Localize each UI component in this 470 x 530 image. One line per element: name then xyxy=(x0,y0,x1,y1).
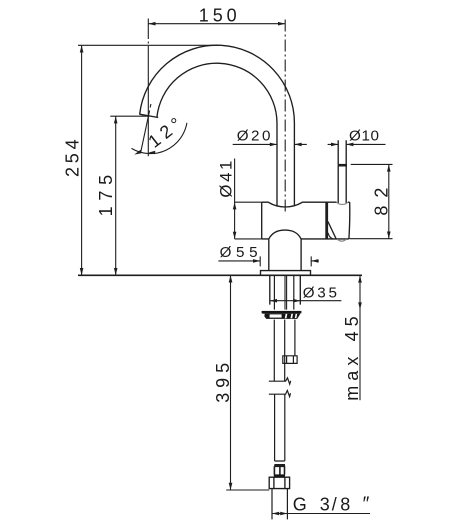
base flange xyxy=(261,271,311,276)
dim O55 ticks xyxy=(260,256,311,266)
hose lower xyxy=(275,394,285,461)
thread tube xyxy=(272,489,287,520)
body left edge xyxy=(261,202,263,239)
shank stud lines xyxy=(285,276,287,310)
arrow 82 bottom xyxy=(387,232,391,239)
deck line xyxy=(78,274,362,276)
dim O35 line xyxy=(270,300,342,302)
arrow 150 right xyxy=(278,22,285,26)
dim 175 line xyxy=(115,116,117,275)
pipe socket dip xyxy=(269,203,302,207)
spout outlet cut xyxy=(140,114,159,117)
dim 395 bottom extension xyxy=(226,489,269,491)
arrow O10 right xyxy=(346,143,353,147)
dim 150 line xyxy=(148,23,285,25)
svg-text:Ø10: Ø10 xyxy=(349,128,379,145)
svg-text:″: ″ xyxy=(363,494,370,515)
arrow O10 left xyxy=(331,143,338,147)
dim 395 line xyxy=(230,275,232,490)
hose end collar xyxy=(274,461,285,465)
body joint thick line xyxy=(325,202,328,239)
dim max45 line xyxy=(359,275,361,400)
arrow 254 top xyxy=(80,45,84,52)
centerline outlet tilted 12deg xyxy=(141,104,151,153)
dim O41 line xyxy=(234,159,236,239)
base neck xyxy=(269,239,301,271)
arrowheads xyxy=(80,22,391,515)
arrow O55 right xyxy=(311,259,318,263)
svg-text:254: 254 xyxy=(62,139,82,177)
arrow angle left xyxy=(134,150,141,155)
arrow 150 left xyxy=(148,22,155,26)
arrow max45 bottom xyxy=(358,302,362,309)
break line upper xyxy=(269,378,291,384)
dim 82 extensions xyxy=(350,164,393,238)
dim O20 line xyxy=(233,143,307,145)
crimp bars xyxy=(274,466,284,474)
svg-text:3: 3 xyxy=(320,494,330,514)
arrow max45 top xyxy=(358,275,362,282)
arrow O35 left xyxy=(270,299,277,303)
arrow 175 top xyxy=(114,116,118,123)
stud end box xyxy=(283,356,297,364)
body bottom edge xyxy=(262,238,349,240)
crimp dark band xyxy=(274,465,285,467)
arrow O41 bottom xyxy=(233,232,237,239)
body top edge xyxy=(262,201,350,203)
arrow 395 bottom xyxy=(229,483,233,490)
svg-text:G: G xyxy=(293,494,307,514)
svg-text:150: 150 xyxy=(199,6,237,26)
arrow O20 left xyxy=(270,143,277,147)
dim 175 top extension xyxy=(110,115,148,117)
svg-text:Ø55: Ø55 xyxy=(220,244,258,261)
shank inner lines xyxy=(274,276,293,310)
centerline spout outlet xyxy=(147,19,149,157)
arrow 395 top xyxy=(229,275,233,282)
cap seam diagonal xyxy=(328,222,336,240)
dim G38 line xyxy=(272,513,370,515)
spout outer arc and right pipe edge xyxy=(140,45,295,206)
svg-text:Ø35: Ø35 xyxy=(303,285,337,302)
svg-text:8: 8 xyxy=(340,494,350,514)
arrow G38 right xyxy=(280,512,287,516)
arrow O41 top xyxy=(233,202,237,209)
arrow angle right xyxy=(148,151,155,155)
body base dome xyxy=(269,230,301,239)
cap bottom bump xyxy=(337,239,346,241)
dim O10 line xyxy=(328,143,386,145)
centerline pipe xyxy=(284,20,286,213)
arrow G38 left xyxy=(272,512,279,516)
dim O41 extensions xyxy=(235,202,262,239)
dim 82 line xyxy=(388,164,390,238)
lever rod lower xyxy=(338,166,346,203)
dim O55 line xyxy=(218,260,319,262)
svg-text:Ø41: Ø41 xyxy=(217,161,236,198)
arrow O35 right xyxy=(293,299,300,303)
svg-text:/: / xyxy=(332,494,337,514)
hex nut xyxy=(269,477,289,488)
lever joint thick bar xyxy=(338,164,347,167)
arrow O55 left xyxy=(253,259,260,263)
arrow 254 bottom xyxy=(80,268,84,275)
lever rod socket dip xyxy=(337,202,348,204)
svg-text:Ø20: Ø20 xyxy=(237,128,271,145)
svg-text:395: 395 xyxy=(213,363,233,403)
dim 254 top extension xyxy=(78,44,219,46)
svg-text:175: 175 xyxy=(96,175,116,217)
stud lower xyxy=(294,320,296,356)
cap seam fillet xyxy=(328,233,333,239)
lever rod xyxy=(338,140,346,164)
angle 12 arc xyxy=(132,123,187,154)
arrow O20 right xyxy=(294,143,301,147)
black band xyxy=(274,474,285,477)
cartridge cap right edge xyxy=(348,202,351,239)
shank outer lines xyxy=(270,276,301,305)
arrow 175 bottom xyxy=(114,268,118,275)
dim 254 line xyxy=(81,45,83,275)
arrow 82 top xyxy=(387,164,391,171)
hose upper xyxy=(274,320,284,381)
break line lower xyxy=(269,390,291,396)
mounting nut black xyxy=(262,311,302,319)
spout inner arc and pipe left edge xyxy=(157,63,277,206)
